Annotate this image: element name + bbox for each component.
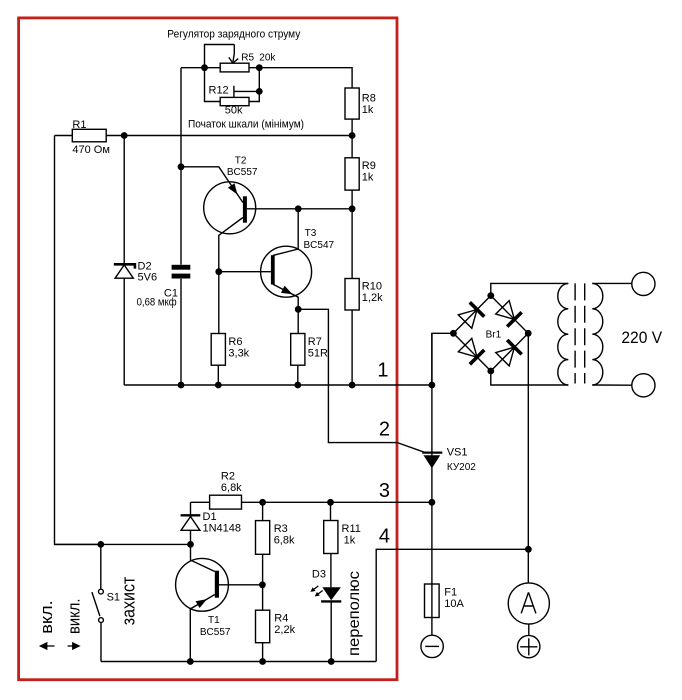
resistor R8 (345, 88, 359, 119)
transistor T3 circle (261, 246, 312, 297)
svg-text:Початок шкали (мінімум): Початок шкали (мінімум) (188, 118, 304, 130)
node dot R6 bottom (215, 382, 222, 389)
resistor R11 (324, 521, 338, 554)
T3 emitter arrow (281, 286, 293, 295)
VS1 gate diagonal (397, 443, 424, 453)
svg-text:F1: F1 (444, 587, 457, 599)
ammeter A (508, 583, 549, 624)
wire R9 top (351, 136, 353, 158)
node dot T1 base / R3 R4 (259, 581, 266, 588)
svg-text:1k: 1k (362, 104, 374, 116)
wire ammeter to plus (528, 624, 530, 636)
plus terminal (518, 635, 540, 657)
T2 emitter wire from tap (181, 167, 243, 203)
svg-text:R1: R1 (72, 119, 86, 131)
protection row wire (55, 543, 191, 545)
arrow вкл (47, 645, 55, 647)
primary bottom terminal (632, 374, 655, 397)
T1 collector wire from top (191, 544, 215, 571)
zener D2 triangle (115, 265, 133, 278)
svg-text:6,8k: 6,8k (221, 482, 242, 494)
resistor R9 (345, 158, 359, 190)
transistor T2 circle (204, 182, 256, 234)
svg-text:5V6: 5V6 (138, 272, 158, 284)
svg-text:0,68 мкф: 0,68 мкф (137, 297, 177, 309)
node R5 right (256, 64, 263, 71)
wire C1 column lower (180, 279, 182, 385)
zener D2 cathode bar (114, 264, 135, 268)
node bridge right corner (525, 330, 532, 337)
wire R9 bottom (351, 190, 353, 209)
svg-text:T1: T1 (208, 615, 220, 626)
svg-text:2,2k: 2,2k (274, 624, 295, 636)
node base row right (349, 205, 356, 212)
node dot D1 bottom (187, 541, 194, 548)
node bridge top corner (487, 292, 494, 299)
minus terminal (421, 635, 443, 657)
node dot R10 bottom (349, 382, 356, 389)
wire left of R1 (55, 135, 73, 137)
wire R7 top (297, 309, 299, 333)
svg-text:R10: R10 (362, 281, 382, 293)
LED D3 emission arrow 1 (309, 584, 320, 594)
wire rail to bridge left (432, 333, 454, 385)
svg-text:КУ202: КУ202 (447, 462, 476, 473)
resistor R10 (345, 279, 359, 311)
R5 wiper arrow (229, 45, 239, 64)
wire R5 left node to resistor (181, 67, 220, 69)
svg-text:Br1: Br1 (486, 330, 502, 341)
wire R6 bottom (217, 365, 219, 385)
wire R4 top (262, 585, 264, 610)
svg-text:переполюс: переполюс (346, 571, 363, 656)
plus sign (520, 638, 537, 655)
node dot ammeter column (525, 546, 532, 553)
wire bridge bottom to transformer (491, 371, 569, 385)
S1 bottom contact (99, 618, 104, 623)
node dot D3 bottom (328, 658, 335, 665)
svg-text:1k: 1k (362, 172, 374, 184)
svg-text:R11: R11 (342, 523, 361, 535)
T1 emitter diagonal (190, 595, 215, 662)
wire left vertical from R1 to protection row (55, 136, 101, 545)
svg-text:10A: 10A (444, 598, 464, 610)
node dot R3 top (259, 499, 266, 506)
resistor R7 (291, 334, 305, 366)
bottom rail (101, 661, 376, 663)
node R12 tap (256, 88, 263, 95)
node dot VS1 cathode (429, 499, 436, 506)
LED D3 triangle (322, 587, 341, 600)
T2 emitter arrow (228, 183, 238, 194)
svg-text:D1: D1 (203, 511, 217, 523)
wire R1 to R8/R9 junction (106, 135, 352, 137)
S1 wire bottom (100, 623, 102, 662)
zener D2 wire top (123, 136, 125, 265)
svg-text:R8: R8 (362, 93, 376, 105)
D1 triangle (181, 517, 200, 531)
svg-text:R9: R9 (362, 160, 376, 172)
bridge diode top-left (458, 302, 484, 328)
T1 emitter arrow (196, 599, 207, 608)
T2 base wire right (247, 208, 352, 210)
svg-text:50k: 50k (225, 105, 243, 117)
wire R7 bottom (297, 365, 299, 385)
primary top terminal (632, 272, 655, 295)
node 4 wire (376, 549, 528, 661)
wire R11 top (330, 502, 332, 520)
T3 base bar (271, 255, 275, 284)
diode D1 wire top (190, 502, 192, 515)
D1 cathode bar (181, 514, 201, 516)
wire T3 base (219, 271, 271, 273)
node dot rail/VS1 column (429, 382, 436, 389)
node 1 rail (124, 384, 432, 386)
red border frame (19, 18, 397, 680)
node R8/R9 junction (349, 132, 356, 139)
node dot C1 bottom (178, 382, 185, 389)
wire primary bottom (592, 384, 632, 386)
svg-text:1N4148: 1N4148 (203, 523, 242, 535)
minus sign (425, 645, 439, 647)
VS1 bar (422, 452, 442, 454)
svg-text:3: 3 (379, 480, 390, 502)
svg-text:R4: R4 (274, 613, 288, 625)
wire bridge top to transformer (491, 283, 569, 295)
svg-text:BC557: BC557 (200, 627, 231, 638)
bridge diode top-right (495, 300, 521, 326)
svg-text:BC557: BC557 (227, 167, 258, 178)
svg-text:T3: T3 (305, 228, 317, 239)
svg-text:BC547: BC547 (304, 240, 335, 251)
fuse F1 (425, 584, 440, 618)
svg-text:6,8k: 6,8k (274, 535, 295, 547)
svg-text:R6: R6 (228, 336, 242, 348)
node bridge left corner (450, 330, 457, 337)
svg-text:R5: R5 (241, 53, 254, 64)
resistor R1 (72, 129, 106, 142)
node 3 wire (242, 501, 432, 503)
R12 wiper tap (234, 86, 259, 98)
wire R3 bottom (262, 554, 264, 585)
node T3 emitter (295, 306, 302, 313)
thyristor VS1 column (431, 333, 433, 634)
node dot R7 bottom (294, 382, 301, 389)
wire R3 top (262, 502, 264, 520)
arrow викл (68, 645, 74, 647)
transformer core (575, 283, 585, 383)
node dot T1 emitter bottom (187, 658, 194, 665)
LED D3 cathode bar (321, 600, 341, 602)
svg-text:Регулятор зарядного струму: Регулятор зарядного струму (167, 28, 300, 40)
bridge diode bottom-right (495, 340, 521, 366)
potentiometer R5 (220, 63, 249, 72)
node D2 top (121, 132, 128, 139)
ammeter column wire (527, 333, 529, 583)
node T2 emitter tap (178, 163, 185, 170)
capacitor C1 plate 2 (172, 274, 191, 279)
wire R8 bottom (351, 119, 353, 135)
wire C1 column upper (180, 68, 182, 265)
D1 wire bottom (190, 530, 192, 544)
resistor R4 (256, 610, 270, 643)
svg-text:51R: 51R (308, 348, 328, 360)
T2 collector diagonal (219, 218, 243, 272)
ammeter letter (521, 592, 536, 613)
bridge Br1 edges (453, 296, 528, 371)
svg-text:220 V: 220 V (621, 329, 662, 347)
LED D3 emission arrow 2 (313, 589, 324, 599)
node T3 collector (295, 205, 302, 212)
wire R10 bottom (351, 310, 353, 385)
wire primary top (592, 282, 632, 284)
zener D2 wire bottom (123, 278, 125, 385)
T2 base bar (243, 196, 247, 222)
node dot S1 top (97, 541, 104, 548)
S1 top contact (99, 589, 104, 594)
T1 base wire right (219, 584, 262, 586)
svg-text:R2: R2 (221, 471, 235, 483)
transformer primary winding (592, 283, 603, 385)
VS1 triangle (424, 455, 441, 468)
svg-text:470 Ом: 470 Ом (72, 144, 110, 156)
wire R5 right to R8 column (249, 68, 352, 89)
svg-text:2: 2 (379, 419, 390, 441)
transistor T1 circle (176, 558, 229, 611)
svg-text:T2: T2 (235, 155, 247, 166)
svg-text:4: 4 (379, 526, 390, 548)
svg-text:R3: R3 (274, 523, 288, 535)
node dot R4 bottom (259, 658, 266, 665)
wire R2 left (191, 501, 210, 503)
S1 lever (92, 592, 100, 616)
wire R11 to LED (330, 554, 332, 588)
svg-text:викл.: викл. (65, 599, 84, 635)
svg-text:3,3k: 3,3k (228, 348, 249, 360)
T1 base bar (215, 571, 219, 598)
svg-text:1,2k: 1,2k (362, 292, 383, 304)
svg-text:вкл.: вкл. (37, 600, 56, 634)
wire T3 emitter to gate line (298, 309, 397, 442)
node dot R11 top (327, 499, 334, 506)
svg-text:1: 1 (377, 360, 388, 382)
trimmer R12 (220, 97, 249, 105)
capacitor C1 plate 1 (172, 265, 191, 270)
svg-text:1k: 1k (344, 535, 356, 547)
wire R12 right leg (249, 68, 259, 102)
wire R5 loop top (205, 45, 235, 68)
wire R12 left leg (205, 68, 221, 102)
svg-text:R7: R7 (308, 336, 322, 348)
node bridge bottom corner (487, 368, 494, 375)
T3 emitter diagonal (273, 284, 298, 309)
wire R6 top (218, 272, 220, 334)
svg-text:D3: D3 (312, 569, 326, 581)
resistor R6 (211, 334, 225, 366)
node R5 left (201, 64, 208, 71)
svg-text:захист: захист (117, 576, 138, 625)
D3 wire bottom (330, 601, 332, 661)
resistor R3 (256, 521, 270, 555)
wire R10 top (351, 209, 353, 279)
node T2 collector / T3 base (215, 268, 222, 275)
transformer secondary winding (558, 283, 569, 385)
svg-text:R12: R12 (209, 85, 229, 97)
wire R4 bottom (262, 643, 264, 662)
svg-text:VS1: VS1 (447, 447, 468, 459)
T3 collector diagonal (273, 209, 298, 256)
svg-text:20k: 20k (259, 53, 276, 64)
switch S1 wire top (100, 544, 102, 588)
bridge diode bottom-left (458, 338, 484, 364)
resistor R2 (210, 495, 242, 509)
